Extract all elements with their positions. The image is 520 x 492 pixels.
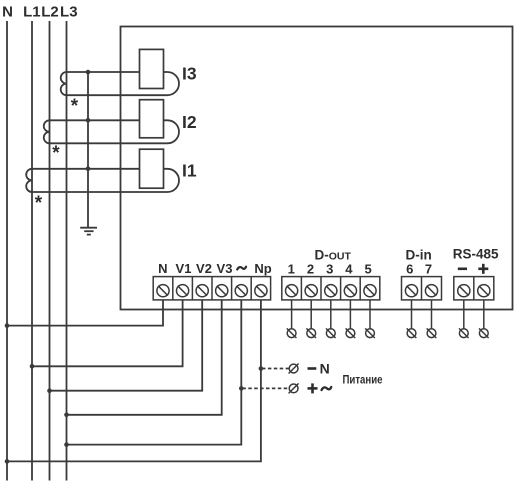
wire L1 vertical	[31, 21, 33, 481]
RS-485 terminal screws	[458, 285, 490, 297]
D-in terminal block	[402, 277, 442, 300]
power N input minus sign	[308, 367, 317, 370]
wire terminal N to mains N	[7, 300, 163, 326]
junction dot I3 marked terminal	[86, 70, 91, 75]
junction dot I2 marked terminal	[86, 118, 91, 123]
junction dot power phase input	[239, 386, 244, 391]
junction dot I1 marked terminal	[86, 167, 91, 172]
CT I2 core window	[140, 100, 164, 138]
svg-text:1: 1	[288, 262, 295, 277]
svg-text:6: 6	[406, 262, 413, 277]
D-in input leads	[412, 300, 432, 329]
dashed wire power phase input	[242, 387, 288, 389]
svg-text:Np: Np	[254, 261, 271, 276]
junction dot L1 tap	[30, 364, 35, 369]
svg-text:L3: L3	[60, 3, 78, 20]
svg-text:*: *	[35, 193, 43, 214]
svg-text:Питание: Питание	[343, 375, 383, 387]
junction dot L3 tap ~	[64, 442, 69, 447]
svg-text:N: N	[320, 360, 330, 376]
D-OUT terminal block	[282, 277, 380, 300]
svg-text:I2: I2	[182, 112, 197, 132]
ground wire	[87, 72, 89, 228]
D-in lead screw ends	[407, 328, 437, 338]
svg-text:I1: I1	[182, 161, 197, 181]
svg-text:5: 5	[364, 262, 371, 277]
power phase input label ~	[322, 387, 332, 390]
wire L2 vertical	[49, 21, 51, 481]
voltage terminal screws	[157, 285, 267, 297]
svg-text:2: 2	[307, 262, 314, 277]
junction dot N tap	[5, 323, 10, 328]
svg-text:D-in: D-in	[405, 248, 431, 263]
power phase input plus sign	[308, 383, 318, 393]
RS-485 leads	[464, 300, 484, 329]
svg-text:RS-485: RS-485	[453, 247, 499, 262]
dashed wire power N input	[262, 368, 289, 370]
junction dot L2 tap	[47, 388, 52, 393]
current transformer I1 winding	[26, 169, 179, 192]
D-OUT output leads	[292, 300, 370, 329]
D-OUT terminal screws	[286, 285, 377, 297]
wire terminal V2 to mains L2	[50, 300, 203, 391]
svg-text:V1: V1	[176, 261, 192, 276]
wire terminal Np to mains N	[7, 300, 261, 462]
D-in terminal screws	[405, 285, 437, 297]
wire terminal V1 to mains L1	[32, 300, 183, 366]
power N input screw	[289, 364, 299, 374]
svg-text:3: 3	[326, 262, 333, 277]
wire N vertical	[6, 21, 8, 481]
svg-text:*: *	[52, 143, 60, 164]
svg-text:V2: V2	[196, 261, 212, 276]
svg-text:L1: L1	[23, 3, 41, 20]
voltage terminal block	[153, 277, 270, 300]
terminal label minus	[458, 267, 467, 270]
junction dot L3 tap V3	[64, 413, 69, 418]
CT I3 core window	[140, 49, 164, 88]
svg-text:D-OUT: D-OUT	[314, 248, 351, 263]
svg-text:7: 7	[425, 262, 432, 277]
junction dot N tap Np	[5, 459, 10, 464]
svg-text:I3: I3	[182, 64, 197, 84]
RS-485 terminal block	[454, 277, 494, 300]
terminal label plus	[478, 264, 488, 274]
meter enclosure box	[121, 27, 513, 310]
wire terminal ~ to mains L3	[67, 300, 242, 445]
svg-text:*: *	[71, 96, 79, 117]
svg-text:V3: V3	[217, 261, 233, 276]
terminal label ~	[237, 267, 246, 270]
svg-text:L2: L2	[41, 3, 59, 20]
junction dot power N input	[259, 366, 264, 371]
svg-text:N: N	[2, 3, 13, 20]
CT I1 core window	[140, 149, 164, 188]
ground symbol	[80, 228, 97, 235]
wire L3 vertical	[66, 21, 68, 481]
wire terminal V3 to mains L3	[67, 300, 222, 415]
power phase input screw	[289, 383, 299, 393]
current transformer I3 winding	[61, 72, 179, 95]
svg-text:4: 4	[345, 262, 353, 277]
current transformer I2 winding	[44, 120, 179, 143]
svg-text:N: N	[158, 261, 167, 276]
RS-485 lead screw ends	[459, 328, 489, 338]
D-OUT lead screw ends	[287, 328, 375, 338]
